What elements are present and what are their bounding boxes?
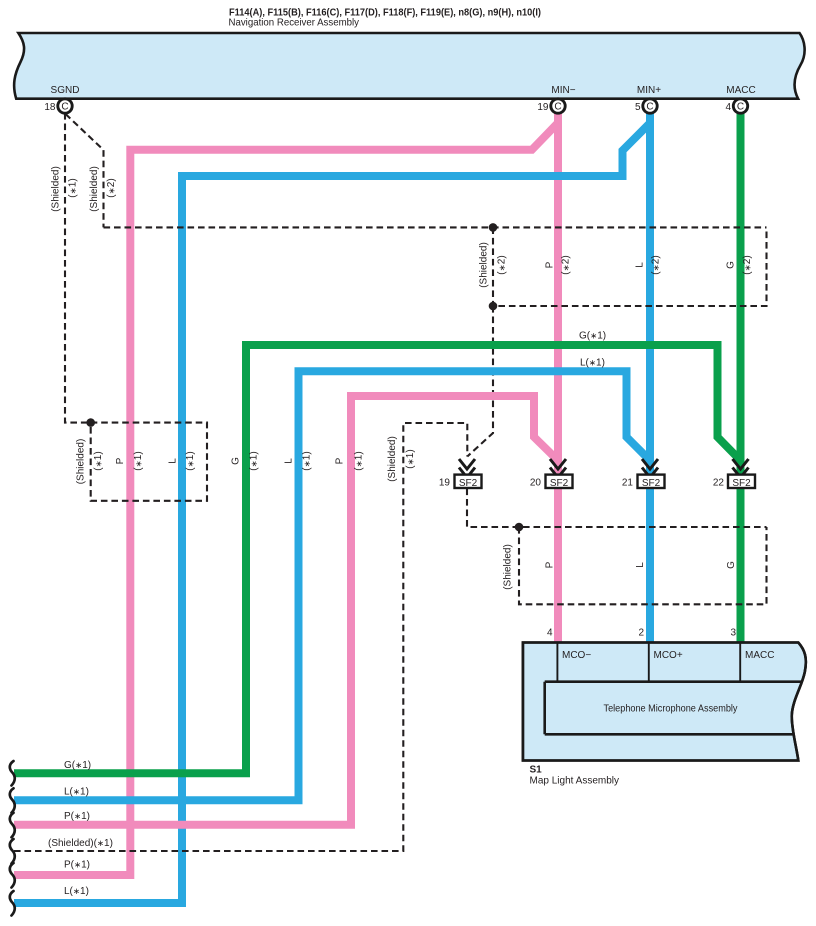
svg-text:(Shielded): (Shielded) xyxy=(51,166,62,212)
wire: dashed shield drain from (*2) box down to SF2 19 (under layer) xyxy=(467,306,493,457)
dashed (Shielded)(*1) box left xyxy=(91,423,207,501)
svg-text:MCO−: MCO− xyxy=(562,650,591,661)
wire MIN- pink main: pin 19 down to SF2 20 xyxy=(554,108,562,474)
svg-text:SGND: SGND xyxy=(51,85,80,96)
svg-text:G: G xyxy=(231,457,242,465)
pin 5 connector C xyxy=(635,99,657,113)
svg-text:(∗1): (∗1) xyxy=(133,451,144,470)
svg-text:Navigation Receiver Assembly: Navigation Receiver Assembly xyxy=(229,18,360,29)
svg-text:MIN−: MIN− xyxy=(551,85,575,96)
svg-text:MCO+: MCO+ xyxy=(654,650,683,661)
dashed shield horizontal run to (*2) box xyxy=(104,226,767,228)
pin 19 connector C xyxy=(537,99,565,113)
connector SF2 19 xyxy=(439,459,482,489)
dashed shield: pin 18 diagonal to (*2) run xyxy=(66,114,104,227)
map box outline restroke xyxy=(523,643,806,761)
svg-text:MACC: MACC xyxy=(726,85,755,96)
wire green below SF2 22 to Map Light pin 3 xyxy=(737,488,745,642)
connector SF2 20 xyxy=(530,459,573,489)
Map Light Assembly box S1 xyxy=(523,643,806,761)
wire break squiggle shielded xyxy=(10,839,15,864)
svg-text:P: P xyxy=(335,457,346,464)
svg-text:4: 4 xyxy=(547,628,553,639)
svg-text:L: L xyxy=(284,458,295,464)
svg-text:P: P xyxy=(545,561,556,568)
svg-text:G: G xyxy=(726,561,737,569)
wire MACC green main: pin 4 down to SF2 22 xyxy=(737,108,745,474)
dashed (Shielded)(*1) run: bottom-left squiggle to SF2 19 xyxy=(14,423,467,851)
svg-text:(∗1): (∗1) xyxy=(68,178,79,197)
junction dot at (*1) box corner xyxy=(86,418,95,427)
wire blue branch L(*1): bottom-left up to pin 5 xyxy=(14,123,650,903)
svg-text:(∗2): (∗2) xyxy=(561,255,572,274)
dashed (Shielded) bottom box xyxy=(519,527,767,604)
svg-text:C: C xyxy=(646,102,653,113)
Telephone Microphone Assembly inner box xyxy=(545,682,810,735)
svg-text:21: 21 xyxy=(622,477,634,488)
svg-text:L: L xyxy=(168,458,179,464)
wire pink P(*1): bottom-left to SF2 20 xyxy=(14,396,558,825)
svg-text:19: 19 xyxy=(439,477,451,488)
wire break squiggle P(*1) xyxy=(10,813,15,838)
svg-text:SF2: SF2 xyxy=(732,478,751,489)
svg-text:G(∗1): G(∗1) xyxy=(579,331,606,342)
svg-text:(Shielded): (Shielded) xyxy=(479,242,490,288)
svg-text:Map Light Assembly: Map Light Assembly xyxy=(530,776,620,787)
svg-text:G: G xyxy=(726,261,737,269)
svg-text:C: C xyxy=(737,102,744,113)
connector SF2 21 xyxy=(622,459,665,489)
svg-text:C: C xyxy=(61,102,68,113)
svg-text:(Shielded): (Shielded) xyxy=(503,544,514,590)
wire green G(*1): bottom-left to SF2 22 xyxy=(14,345,741,773)
wire break squiggle L(*1) xyxy=(10,788,15,813)
dashed (Shielded)(*2) box xyxy=(493,227,767,306)
svg-text:(∗1): (∗1) xyxy=(93,451,104,470)
wire break squiggle G(*1) xyxy=(10,761,15,786)
svg-text:P(∗1): P(∗1) xyxy=(64,811,90,822)
pin 4 connector C xyxy=(725,99,747,113)
svg-text:(Shielded): (Shielded) xyxy=(387,436,398,482)
wire break squiggle L(*1) lower xyxy=(10,891,15,916)
svg-text:(∗2): (∗2) xyxy=(742,255,753,274)
svg-text:G(∗1): G(∗1) xyxy=(64,760,91,771)
svg-text:(∗2): (∗2) xyxy=(651,255,662,274)
svg-text:L: L xyxy=(635,262,646,268)
junction dot at (*2) box top corner xyxy=(489,223,498,232)
svg-text:19: 19 xyxy=(537,102,549,113)
svg-text:P(∗1): P(∗1) xyxy=(64,860,90,871)
wire pink below SF2 20 to Map Light pin 4 xyxy=(554,488,562,642)
dashed shield: pin 18 straight down to (*1) shield box xyxy=(65,113,91,423)
svg-text:4: 4 xyxy=(725,102,731,113)
svg-text:(∗2): (∗2) xyxy=(497,255,508,274)
svg-text:P: P xyxy=(545,261,556,268)
svg-text:(Shielded): (Shielded) xyxy=(89,166,100,212)
svg-text:(∗1): (∗1) xyxy=(405,449,416,468)
svg-text:(∗2): (∗2) xyxy=(106,178,117,197)
junction dot at (*2) box bottom corner xyxy=(489,302,498,311)
wire MIN+ blue main: pin 5 down to SF2 21 xyxy=(646,108,654,474)
connector SF2 22 xyxy=(713,459,755,489)
svg-text:L(∗1): L(∗1) xyxy=(580,358,605,369)
svg-text:(Shielded): (Shielded) xyxy=(76,439,87,485)
svg-text:MACC: MACC xyxy=(745,650,774,661)
svg-text:SF2: SF2 xyxy=(642,478,661,489)
map box cell dividers xyxy=(545,643,810,735)
svg-text:L(∗1): L(∗1) xyxy=(64,787,89,798)
svg-text:20: 20 xyxy=(530,477,542,488)
svg-text:5: 5 xyxy=(635,102,641,113)
svg-text:S1: S1 xyxy=(530,765,543,776)
wire blue L(*1): bottom-left to SF2 21 xyxy=(14,371,650,800)
svg-text:3: 3 xyxy=(730,628,736,639)
svg-text:22: 22 xyxy=(713,477,725,488)
wire pink branch P(*1): bottom-left up to pin 19 xyxy=(14,123,558,875)
svg-text:(∗1): (∗1) xyxy=(354,451,365,470)
svg-text:L: L xyxy=(635,562,646,568)
wire blue below SF2 21 to Map Light pin 2 xyxy=(646,488,654,642)
svg-text:MIN+: MIN+ xyxy=(637,85,661,96)
junction dot at bottom shield box corner xyxy=(515,523,524,532)
Navigation Receiver Assembly box xyxy=(14,33,805,99)
svg-text:C: C xyxy=(554,102,561,113)
wire break squiggle P(*1) lower xyxy=(10,863,15,888)
svg-text:SF2: SF2 xyxy=(550,478,569,489)
dashed shield below SF2 19 to bottom shield box xyxy=(467,489,767,528)
svg-text:SF2: SF2 xyxy=(459,478,478,489)
svg-text:Telephone Microphone Assembly: Telephone Microphone Assembly xyxy=(604,704,738,715)
svg-text:P: P xyxy=(115,457,126,464)
svg-text:(∗1): (∗1) xyxy=(185,451,196,470)
pin 18 connector C xyxy=(44,99,72,113)
svg-text:(∗1): (∗1) xyxy=(302,451,313,470)
svg-text:18: 18 xyxy=(44,102,56,113)
svg-text:2: 2 xyxy=(638,628,644,639)
svg-text:L(∗1): L(∗1) xyxy=(64,886,89,897)
svg-text:(∗1): (∗1) xyxy=(249,451,260,470)
svg-text:(Shielded)(∗1): (Shielded)(∗1) xyxy=(48,838,113,849)
